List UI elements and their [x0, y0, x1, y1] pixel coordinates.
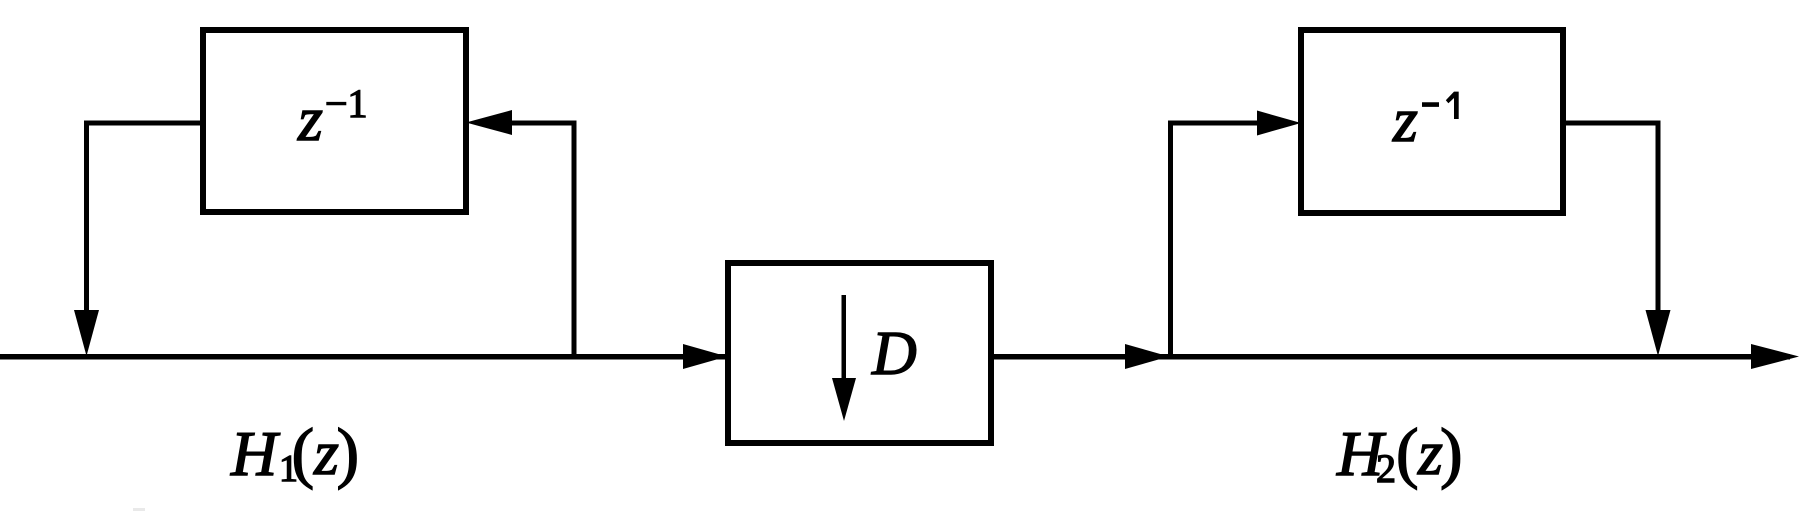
- svg-text:2: 2: [1376, 446, 1396, 491]
- wire H1 feedback top-left horizontal: [84, 121, 203, 126]
- wire H1 right vertical riser: [572, 121, 577, 357]
- wire H1 right horizontal into box: [505, 121, 576, 126]
- label z^-1 (right box): [1392, 84, 1459, 155]
- downsampler arrow shaft: [842, 295, 847, 385]
- wire H2 right horizontal out of box: [1563, 121, 1660, 126]
- svg-text:(: (: [1396, 414, 1419, 490]
- wire main signal line right segment: [994, 354, 1790, 360]
- wire H2 right vertical drop: [1656, 121, 1661, 321]
- block H1 delay box: [203, 30, 466, 212]
- svg-text:z: z: [313, 417, 339, 488]
- svg-text:z: z: [1392, 84, 1418, 155]
- arrowhead main line end (pointing right): [1751, 344, 1799, 369]
- label z^-1 (left box): [297, 81, 368, 154]
- block downsampler D box: [728, 263, 991, 443]
- wire H2 feedback top-left horizontal: [1168, 121, 1262, 126]
- wire H1 feedback left vertical: [84, 121, 89, 336]
- arrowhead into H1 box right side (pointing left): [466, 110, 512, 135]
- faint stray mark bottom-left: [133, 508, 145, 511]
- arrowhead into H2 box left side (pointing right): [1257, 111, 1301, 136]
- arrowhead H2 feedback down into main line: [1646, 310, 1671, 356]
- svg-text:D: D: [871, 320, 917, 388]
- arrowhead H1 feedback down into main line: [74, 310, 99, 356]
- arrowhead into downsampler box (pointing right): [683, 344, 727, 369]
- arrowhead mid line junction (pointing right): [1125, 344, 1169, 369]
- wire H2 feedback left vertical riser: [1168, 121, 1173, 357]
- svg-text:−1: −1: [325, 81, 368, 126]
- wire main signal line left segment: [0, 354, 728, 360]
- label H2(z): [1336, 414, 1463, 491]
- svg-text:H: H: [230, 418, 281, 489]
- svg-text:z: z: [297, 83, 323, 154]
- downsampler arrowhead (pointing down): [832, 378, 856, 421]
- svg-text:(: (: [292, 414, 315, 490]
- svg-text:): ): [1440, 414, 1463, 490]
- label H1(z): [230, 414, 359, 490]
- block H2 delay box: [1301, 30, 1563, 213]
- svg-text:): ): [337, 414, 360, 490]
